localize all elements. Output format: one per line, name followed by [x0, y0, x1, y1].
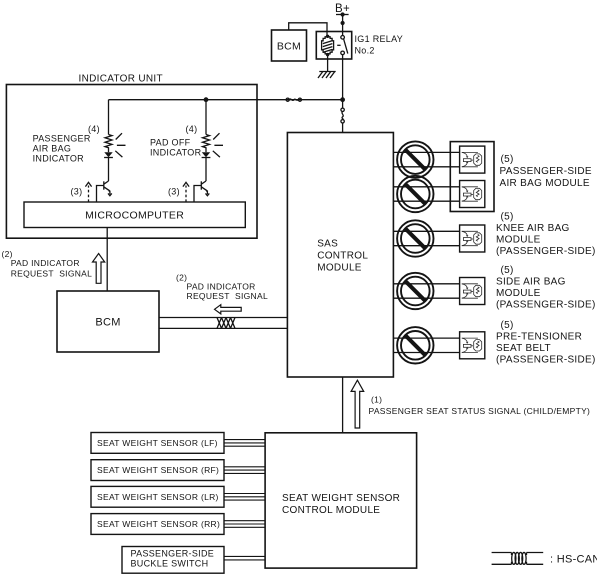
svg-text:REQUEST SIGNAL: REQUEST SIGNAL — [11, 268, 93, 278]
wires seat weight sensor (RR) — [224, 521, 265, 528]
node on B+ terminal — [341, 12, 345, 16]
(5) knee air bag module label — [496, 212, 596, 258]
seat weight sensor (LF) box — [91, 433, 224, 454]
light rays — [213, 133, 223, 157]
seat weight sensor (RR) box — [91, 514, 224, 535]
svg-text:AIR BAG MODULE: AIR BAG MODULE — [500, 178, 590, 189]
svg-text:INDICATOR: INDICATOR — [33, 154, 85, 164]
svg-text:MICROCOMPUTER: MICROCOMPUTER — [85, 210, 184, 222]
wire BCM to relay coil — [289, 23, 327, 37]
svg-text:BCM: BCM — [277, 40, 301, 52]
passenger-side buckle switch box — [122, 547, 224, 574]
base wire to microcomputer — [97, 186, 104, 203]
svg-text:SEAT WEIGHT SENSOR: SEAT WEIGHT SENSOR — [282, 493, 400, 504]
svg-text:PAD OFF: PAD OFF — [150, 137, 191, 147]
wires SAS to side air bag squib — [393, 284, 459, 298]
wires SAS to pre-tensioner squib — [393, 338, 459, 352]
svg-text:INDICATOR UNIT: INDICATOR UNIT — [79, 74, 163, 85]
seat weight sensor (LR) box — [91, 486, 224, 507]
resistor pad off indicator — [203, 135, 210, 153]
control signal dashed arrow — [183, 182, 189, 202]
(1) passenger seat status signal label — [369, 395, 591, 416]
wires SAS to knee air bag squib — [393, 231, 459, 245]
wires seat weight sensor (LR) — [224, 494, 265, 501]
svg-text:MODULE: MODULE — [496, 288, 541, 299]
deployment-inhibit symbol 5 — [397, 327, 433, 363]
svg-text:MODULE: MODULE — [317, 262, 362, 273]
deployment-inhibit symbol 3 — [397, 220, 433, 256]
(2) pad indicator request signal label (left) — [2, 249, 93, 279]
wires seat weight sensor (LF) — [224, 440, 265, 447]
knee air bag squib module box — [460, 225, 485, 252]
svg-text:(PASSENGER-SIDE): (PASSENGER-SIDE) — [496, 355, 596, 366]
wire coil to ground — [327, 59, 329, 72]
signal arrow up (1) — [351, 380, 364, 428]
svg-text:PAD INDICATOR: PAD INDICATOR — [11, 258, 80, 268]
svg-text:PRE-TENSIONER: PRE-TENSIONER — [496, 332, 582, 343]
SEAT WEIGHT SENSOR CONTROL MODULE label — [282, 493, 400, 516]
(2) pad indicator request signal label (middle) — [176, 272, 268, 301]
wire passenger air bag indicator branch — [108, 100, 110, 135]
LED pad off indicator — [202, 152, 211, 157]
svg-text:PASSENGER-SIDE: PASSENGER-SIDE — [131, 549, 215, 559]
passenger air bag squib 2 module box — [460, 181, 485, 208]
light rays — [115, 133, 125, 157]
B+ terminal bar — [336, 14, 349, 16]
control signal dashed arrow — [85, 182, 91, 202]
svg-text:CONTROL: CONTROL — [317, 250, 368, 261]
transistor passenger air bag driver — [104, 181, 112, 196]
deployment-inhibit symbol 4 — [397, 273, 433, 309]
svg-text:SEAT WEIGHT SENSOR (LR): SEAT WEIGHT SENSOR (LR) — [97, 492, 219, 502]
passenger air bag squib 1 module box — [460, 146, 485, 173]
resistor passenger air bag indicator — [105, 135, 112, 153]
(5) side air bag module label — [496, 265, 596, 311]
svg-text:(5): (5) — [501, 320, 514, 331]
svg-text:REQUEST SIGNAL: REQUEST SIGNAL — [187, 291, 269, 301]
svg-text:(3): (3) — [71, 186, 83, 196]
svg-text:(PASSENGER-SIDE): (PASSENGER-SIDE) — [496, 300, 596, 311]
svg-text:AIR BAG: AIR BAG — [33, 144, 72, 154]
svg-text:PASSENGER: PASSENGER — [33, 133, 91, 143]
pre-tensioner squib module box — [460, 332, 485, 359]
node pad off branch on rail — [204, 97, 209, 102]
wires seat weight sensor (RF) — [224, 467, 265, 474]
seat weight sensor control module box — [265, 433, 417, 568]
svg-text:SAS: SAS — [317, 238, 338, 249]
signal arrow up (2) — [93, 254, 105, 284]
transistor pad off driver — [201, 181, 209, 196]
junction node — [340, 97, 345, 102]
wire LED to transistor — [205, 158, 207, 182]
wires SAS to passenger air bag squib 1 — [393, 152, 459, 166]
wire rail to indicator unit — [109, 99, 343, 101]
svg-text:(4): (4) — [88, 124, 100, 134]
svg-text:: HS-CAN: : HS-CAN — [550, 554, 597, 566]
svg-text:SEAT WEIGHT SENSOR (LF): SEAT WEIGHT SENSOR (LF) — [97, 438, 218, 448]
svg-text:SIDE AIR BAG: SIDE AIR BAG — [496, 277, 566, 288]
indicator unit box — [6, 85, 257, 239]
wires buckle switch — [224, 556, 265, 560]
LED passenger air bag indicator — [104, 152, 113, 157]
wire relay switch to junction — [342, 59, 344, 100]
wires SAS to passenger air bag squib 2 — [393, 187, 459, 201]
svg-text:(5): (5) — [501, 265, 514, 276]
svg-text:SEAT WEIGHT SENSOR (RR): SEAT WEIGHT SENSOR (RR) — [97, 519, 220, 529]
wire pad off indicator branch — [205, 100, 207, 135]
svg-text:No.2: No.2 — [355, 45, 375, 55]
(5) passenger-side air bag module label — [500, 154, 592, 189]
SAS control module box — [287, 133, 393, 378]
deployment-inhibit symbol 2 — [397, 176, 433, 212]
svg-text:(4): (4) — [186, 124, 198, 134]
relay switch — [337, 32, 348, 60]
inline connector on rail — [286, 98, 301, 101]
node on B+ wire — [341, 21, 345, 25]
relay coil — [322, 35, 334, 59]
svg-text:(PASSENGER-SIDE): (PASSENGER-SIDE) — [496, 246, 596, 257]
base wire to microcomputer — [194, 186, 201, 203]
svg-text:MODULE: MODULE — [496, 235, 541, 246]
BCM (upper) box — [272, 30, 307, 61]
HS-CAN legend symbol — [492, 552, 544, 564]
twisted pair BCM to SAS — [159, 318, 287, 329]
SAS CONTROL MODULE label — [317, 238, 368, 273]
svg-text:BCM: BCM — [95, 316, 120, 328]
svg-text:(1): (1) — [371, 395, 382, 405]
wire SAS to seat weight sensor control module — [342, 377, 344, 433]
signal arrow left (2) — [215, 305, 242, 314]
wire B+ to IG1 relay — [342, 15, 344, 32]
svg-text:CONTROL MODULE: CONTROL MODULE — [282, 505, 380, 516]
svg-text:BUCKLE SWITCH: BUCKLE SWITCH — [131, 559, 209, 569]
svg-text:PASSENGER SEAT STATUS SIGNAL (: PASSENGER SEAT STATUS SIGNAL (CHILD/EMPT… — [369, 406, 591, 416]
BCM (lower) box — [57, 291, 159, 352]
svg-text:SEAT WEIGHT SENSOR (RF): SEAT WEIGHT SENSOR (RF) — [97, 465, 219, 475]
svg-text:INDICATOR: INDICATOR — [150, 148, 202, 158]
ground — [318, 72, 336, 79]
svg-text:PAD INDICATOR: PAD INDICATOR — [187, 281, 256, 291]
svg-text:PASSENGER-SIDE: PASSENGER-SIDE — [500, 166, 592, 177]
deployment-inhibit symbol 1 — [397, 141, 433, 177]
(5) pre-tensioner seat belt label — [496, 320, 596, 366]
seat weight sensor (RF) box — [91, 460, 224, 481]
svg-text:SEAT BELT: SEAT BELT — [496, 343, 551, 354]
microcomputer box — [24, 202, 245, 228]
svg-text:(5): (5) — [501, 212, 514, 223]
wire LED to transistor — [108, 158, 110, 182]
svg-text:KNEE AIR BAG: KNEE AIR BAG — [496, 223, 570, 234]
svg-text:(5): (5) — [501, 154, 514, 165]
connector junction to SAS module — [341, 100, 344, 133]
passenger-side air bag module outer box — [450, 142, 494, 212]
wire microcomputer to BCM — [106, 228, 108, 292]
side air bag squib module box — [460, 278, 485, 305]
svg-text:IG1 RELAY: IG1 RELAY — [355, 34, 404, 44]
svg-text:(3): (3) — [168, 186, 180, 196]
relay IG1 No.2 box — [316, 32, 351, 60]
